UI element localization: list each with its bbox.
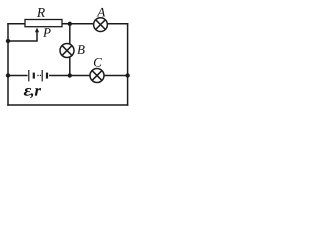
wire: slider tap from left rail	[8, 31, 37, 42]
label B	[77, 45, 85, 54]
resistor R (rheostat box)	[25, 20, 62, 27]
node: bottom of lamp B branch	[68, 73, 72, 77]
wire: right vertical	[127, 24, 129, 105]
wire: top horizontal	[8, 23, 128, 25]
node: slider tap on left rail	[6, 39, 10, 43]
label C	[94, 58, 102, 67]
label R	[37, 8, 45, 17]
node: lamp C row on right rail	[125, 73, 129, 77]
label P	[43, 28, 51, 37]
label A	[97, 8, 106, 17]
wire: middle horizontal (battery / lamp C row)	[8, 75, 128, 77]
lamp B	[60, 44, 74, 58]
lamp C	[90, 69, 104, 83]
battery eps,r	[28, 69, 49, 83]
node: battery row on left rail	[6, 73, 10, 77]
wire: lamp B branch vertical	[69, 24, 71, 76]
slider arrow P	[35, 28, 39, 33]
wire: left vertical	[7, 24, 9, 105]
lamp A	[94, 18, 108, 32]
label eps,r	[24, 88, 41, 98]
node: top of lamp B branch	[68, 22, 72, 26]
wire: bottom horizontal	[8, 104, 128, 106]
